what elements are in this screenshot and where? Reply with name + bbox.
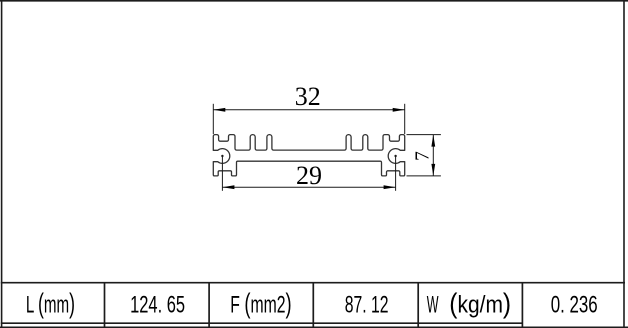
svg-text:29: 29 <box>296 161 322 190</box>
svg-text:(kg/m): (kg/m) <box>449 287 511 319</box>
svg-text:F (mm2): F (mm2) <box>230 289 291 320</box>
svg-text:7: 7 <box>413 151 434 161</box>
svg-text:L (mm): L (mm) <box>26 287 75 318</box>
svg-text:32: 32 <box>295 82 321 111</box>
svg-text:0. 236: 0. 236 <box>551 292 598 319</box>
svg-text:W: W <box>427 292 439 318</box>
svg-text:124. 65: 124. 65 <box>130 292 185 319</box>
svg-text:87. 12: 87. 12 <box>345 292 389 318</box>
